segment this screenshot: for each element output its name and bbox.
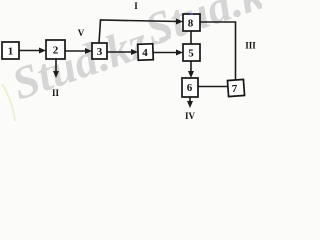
svg-text:III: III: [245, 41, 256, 51]
svg-text:I: I: [134, 1, 138, 11]
svg-text:2: 2: [53, 45, 59, 57]
svg-text:II: II: [52, 88, 60, 98]
svg-text:5: 5: [188, 48, 194, 60]
svg-text:1: 1: [8, 46, 14, 58]
svg-text:V: V: [78, 28, 85, 38]
svg-text:8: 8: [188, 18, 194, 30]
svg-text:7: 7: [232, 83, 238, 95]
svg-text:4: 4: [142, 47, 148, 59]
svg-text:IV: IV: [185, 111, 196, 121]
svg-text:6: 6: [187, 82, 193, 94]
svg-text:3: 3: [97, 46, 103, 58]
